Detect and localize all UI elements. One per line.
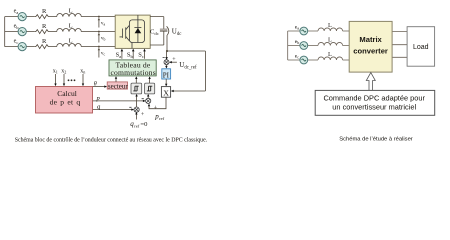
svg-text:commutations: commutations <box>110 68 155 77</box>
svg-text:ref: ref <box>134 124 140 129</box>
svg-text:Load: Load <box>413 44 429 51</box>
svg-text:PI: PI <box>163 71 170 79</box>
svg-text:2: 2 <box>64 70 66 75</box>
svg-text:L: L <box>69 22 73 29</box>
svg-text:ref: ref <box>159 116 165 121</box>
svg-text:L: L <box>328 22 332 29</box>
svg-text:Matrix: Matrix <box>359 35 382 44</box>
svg-text:ec: ec <box>295 53 299 59</box>
svg-text:X: X <box>163 88 169 97</box>
svg-text:R: R <box>42 23 47 30</box>
svg-text:+: + <box>154 105 158 111</box>
svg-text:eb: eb <box>295 39 299 45</box>
svg-text:1: 1 <box>56 70 58 75</box>
svg-text:L: L <box>328 36 332 43</box>
svg-text:=0: =0 <box>140 121 148 128</box>
svg-text:Calcul: Calcul <box>57 89 77 98</box>
svg-text:Commande DPC adaptée pour: Commande DPC adaptée pour <box>323 93 425 102</box>
svg-text:ea: ea <box>295 24 299 30</box>
svg-text:L: L <box>69 37 73 44</box>
svg-text:de p et q: de p et q <box>50 98 81 107</box>
svg-text:L: L <box>69 7 73 14</box>
svg-text:L: L <box>328 51 332 58</box>
svg-text:converter: converter <box>353 46 388 55</box>
svg-text:p: p <box>96 95 101 102</box>
svg-text:+: + <box>172 57 176 63</box>
svg-text:un convertisseur matriciel: un convertisseur matriciel <box>332 102 416 111</box>
svg-text:R: R <box>42 8 47 15</box>
svg-text:secteur: secteur <box>108 83 128 91</box>
svg-text:Schéma bloc de contrôle de l’o: Schéma bloc de contrôle de l’onduleur co… <box>15 137 208 143</box>
svg-text:R: R <box>42 38 47 45</box>
svg-text:Schéma de l’étude à réaliser: Schéma de l’étude à réaliser <box>339 137 413 143</box>
svg-text:θ: θ <box>94 82 97 88</box>
